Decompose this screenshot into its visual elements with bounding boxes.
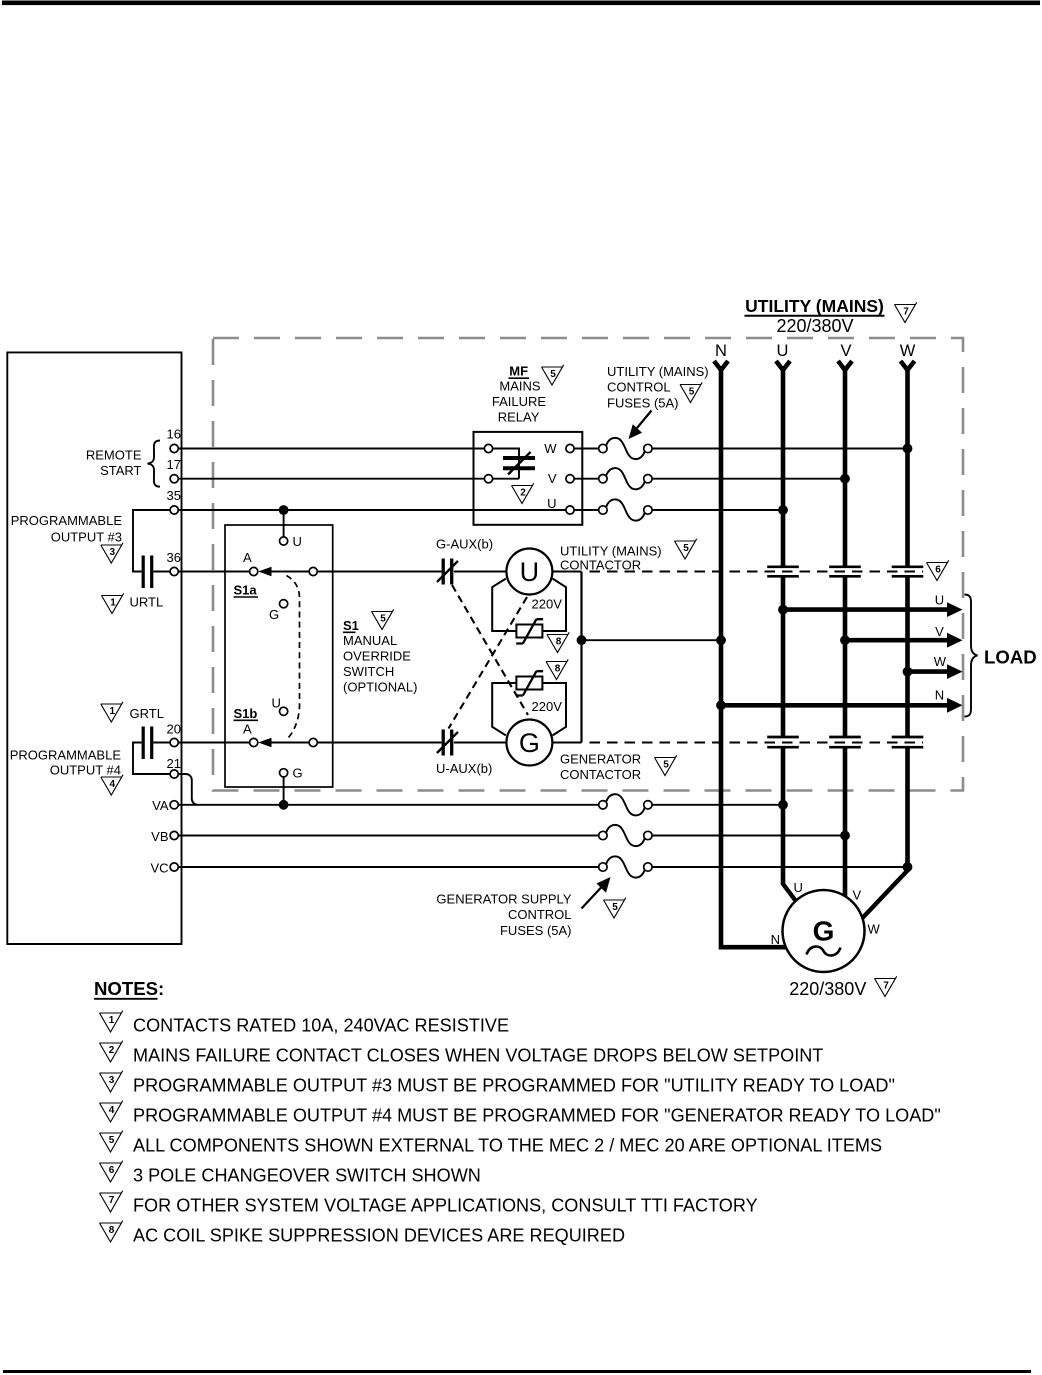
wire 21 elbow to VA — [178, 774, 198, 805]
node load U — [778, 605, 788, 615]
wire row 35 — [178, 509, 566, 511]
node V bus row17 — [840, 474, 850, 484]
svg-text:U: U — [520, 557, 540, 587]
S1a pole G — [269, 600, 288, 622]
flag note 8 — [100, 1221, 123, 1242]
S1b common A with arrow — [243, 722, 272, 748]
contact U-AUX(b) — [437, 730, 458, 756]
svg-text:7: 7 — [883, 980, 889, 991]
svg-text:7: 7 — [903, 306, 909, 317]
wire GRTL to 21 — [133, 743, 170, 775]
wire row 20 segments — [178, 742, 506, 744]
svg-text:MF: MF — [509, 364, 528, 379]
terminal VA — [152, 798, 178, 813]
terminal 35 — [167, 488, 181, 514]
node coil common — [577, 635, 587, 645]
relay MF box — [474, 432, 583, 525]
contactor U pole contact (V bus) — [829, 567, 861, 577]
svg-text:V: V — [840, 342, 851, 360]
svg-text:G: G — [293, 766, 303, 781]
flag 5 (S1) — [372, 609, 394, 629]
svg-text:V: V — [548, 471, 557, 486]
terminal 17 — [167, 457, 181, 483]
svg-text:U: U — [293, 534, 302, 549]
svg-text:A: A — [243, 550, 252, 565]
label UTILITY (MAINS) title — [745, 296, 885, 316]
terminal 16 — [167, 427, 181, 453]
svg-text:5: 5 — [663, 759, 669, 770]
svg-text:NOTES:: NOTES: — [94, 978, 164, 999]
page header rule — [2, 1, 1040, 6]
fuse W row — [599, 438, 652, 459]
svg-text:MAINS: MAINS — [499, 378, 541, 393]
svg-text:FOR OTHER SYSTEM VOLTAGE APPLI: FOR OTHER SYSTEM VOLTAGE APPLICATIONS, C… — [133, 1196, 758, 1216]
svg-text:5: 5 — [380, 613, 386, 624]
arrow to utility fuse — [629, 411, 652, 440]
coil G enclosure — [492, 683, 566, 735]
dashed interlock U coil to U-AUX — [449, 597, 528, 729]
svg-text:VB: VB — [151, 829, 168, 844]
svg-text:U-AUX(b): U-AUX(b) — [436, 761, 492, 776]
node U bus row35 — [778, 505, 788, 515]
dashed interlock G-AUX to G coil — [452, 585, 528, 715]
svg-text:G-AUX(b): G-AUX(b) — [436, 536, 493, 551]
svg-text:ALL COMPONENTS SHOWN EXTERNAL: ALL COMPONENTS SHOWN EXTERNAL TO THE MEC… — [133, 1136, 882, 1156]
bus N supply fork — [714, 361, 728, 370]
contactor coil U — [506, 549, 552, 595]
svg-text:4: 4 — [109, 1105, 115, 1116]
svg-text:2: 2 — [109, 1045, 115, 1056]
svg-text:W: W — [934, 654, 947, 669]
svg-text:3: 3 — [110, 547, 116, 558]
svg-text:REMOTE: REMOTE — [86, 447, 142, 462]
varistor (U coil) — [516, 619, 543, 643]
svg-text:W: W — [868, 922, 881, 937]
svg-text:1: 1 — [110, 706, 116, 717]
terminal 20 — [167, 722, 181, 747]
wire row 36 segments — [178, 571, 506, 573]
svg-text:U: U — [272, 696, 281, 711]
svg-text:6: 6 — [109, 1165, 115, 1176]
relay output contact V — [548, 471, 574, 486]
fuse VA — [599, 794, 652, 815]
contactor G pole contact (U bus) — [767, 737, 799, 747]
svg-text:VC: VC — [150, 860, 168, 875]
node VB on V bus — [840, 831, 850, 841]
svg-text:U: U — [935, 593, 944, 608]
flag 3 — [101, 543, 123, 563]
flag note 6 — [100, 1161, 123, 1182]
wire VC fuse to W bus — [652, 866, 908, 868]
fuse VC — [599, 856, 652, 877]
wire row 16 — [178, 448, 484, 450]
wire relay W to fuse — [574, 448, 599, 450]
svg-text:N: N — [935, 688, 944, 703]
brace remote start — [148, 441, 161, 487]
svg-text:SWITCH: SWITCH — [343, 664, 394, 679]
svg-text:CONTROL: CONTROL — [607, 380, 671, 395]
wire coil U right — [552, 571, 581, 573]
optional-items dashed boundary box — [213, 338, 963, 791]
terminal 21 — [167, 756, 181, 778]
svg-text:5: 5 — [109, 1135, 115, 1146]
terminal VC — [150, 860, 178, 875]
page footer rule — [3, 1370, 1031, 1373]
wire relay U to fuse — [574, 509, 599, 511]
label MF MAINS FAILURE RELAY — [492, 364, 547, 425]
contact MF (closes on mains failure) — [503, 452, 535, 475]
svg-text:V: V — [853, 888, 862, 903]
wire row 17 — [178, 478, 484, 480]
svg-text:LOAD: LOAD — [984, 647, 1037, 668]
wire row VB — [178, 835, 598, 837]
load feeder V — [845, 624, 963, 648]
svg-text:S1: S1 — [343, 618, 359, 633]
label REMOTE START — [86, 447, 142, 478]
bus N — [721, 369, 786, 948]
wire VA fuse to U bus — [652, 804, 783, 806]
controller outline box (MEC 2 / MEC 20) — [7, 352, 181, 944]
flag note 7 — [100, 1191, 123, 1212]
label GENERATOR SUPPLY CONTROL FUSES (5A) — [436, 891, 571, 938]
contact URTL — [143, 556, 152, 589]
flag note 3 — [100, 1071, 123, 1092]
flag note 1 — [100, 1011, 123, 1032]
S1b pole G — [280, 766, 303, 781]
terminal VB — [151, 829, 178, 844]
svg-text:PROGRAMMABLE: PROGRAMMABLE — [11, 513, 123, 528]
relay coil terminals left — [484, 444, 492, 482]
svg-text:220V: 220V — [532, 597, 563, 612]
S1a right terminal — [309, 567, 317, 575]
label S1a — [234, 583, 259, 598]
S1b pole U — [272, 696, 288, 716]
svg-text:S1a: S1a — [234, 583, 258, 598]
svg-text:V: V — [935, 624, 944, 639]
wire relay V to fuse — [574, 478, 599, 480]
bus U drop to generator — [783, 883, 797, 902]
svg-text:CONTACTS RATED 10A, 240VAC RES: CONTACTS RATED 10A, 240VAC RESISTIVE — [133, 1016, 509, 1036]
svg-text:OUTPUT #3: OUTPUT #3 — [51, 530, 122, 545]
svg-text:GENERATOR: GENERATOR — [560, 751, 641, 766]
svg-text:220/380V: 220/380V — [776, 316, 853, 336]
node VC on W bus — [903, 862, 913, 872]
node load W — [903, 667, 913, 677]
S1a pole U — [280, 534, 302, 549]
svg-text:16: 16 — [167, 427, 181, 442]
svg-text:G: G — [813, 916, 835, 947]
flag 7 (system voltage, top) — [895, 302, 917, 322]
svg-text:UTILITY (MAINS): UTILITY (MAINS) — [745, 296, 884, 316]
relay output contact U — [547, 496, 574, 514]
svg-text:N: N — [771, 932, 780, 947]
svg-text:1: 1 — [109, 1015, 115, 1026]
flag 6 (3 pole changeover) — [927, 560, 949, 580]
dashed mechanical link S1a-S1b — [287, 576, 300, 739]
svg-text:8: 8 — [555, 663, 561, 674]
wire fuse to V bus — [652, 478, 845, 480]
svg-text:A: A — [243, 722, 252, 737]
svg-text:CONTROL: CONTROL — [508, 907, 572, 922]
flag note 2 — [100, 1041, 123, 1062]
label NOTES heading — [94, 978, 164, 999]
svg-text:220V: 220V — [532, 699, 563, 714]
varistor (G coil) — [516, 671, 543, 695]
wire coil G right — [552, 742, 581, 744]
svg-text:(OPTIONAL): (OPTIONAL) — [343, 679, 417, 694]
svg-text:PROGRAMMABLE OUTPUT #3 MUST BE: PROGRAMMABLE OUTPUT #3 MUST BE PROGRAMME… — [133, 1076, 895, 1096]
svg-text:GRTL: GRTL — [130, 706, 164, 721]
svg-text:5: 5 — [612, 902, 618, 913]
terminal 36 — [167, 550, 181, 576]
bus W supply fork — [901, 361, 915, 370]
svg-text:S1b: S1b — [234, 706, 258, 721]
svg-text:FAILURE: FAILURE — [492, 394, 547, 409]
flag 1 (URTL) — [102, 593, 124, 613]
wire row VC — [178, 866, 598, 868]
flag 1 (GRTL) — [101, 702, 123, 722]
flag 5 (control fuses) — [680, 382, 702, 402]
svg-text:2: 2 — [520, 487, 526, 498]
svg-text:AC COIL SPIKE SUPPRESSION DEVI: AC COIL SPIKE SUPPRESSION DEVICES ARE RE… — [133, 1226, 625, 1246]
svg-text:17: 17 — [167, 457, 181, 472]
svg-text:CONTACTOR: CONTACTOR — [560, 767, 641, 782]
svg-text:220/380V: 220/380V — [789, 979, 866, 999]
wire coil common to N bus — [582, 639, 722, 641]
label UTILITY (MAINS) CONTACTOR — [560, 544, 662, 573]
flag 8 (upper) — [547, 632, 569, 652]
flag 7 (generator voltage) — [875, 976, 897, 996]
svg-text:8: 8 — [109, 1225, 115, 1236]
flag 5 (MF relay) — [542, 365, 564, 385]
wire fuse to U bus — [652, 509, 783, 511]
wire coils common vertical — [580, 572, 582, 743]
bus U — [781, 369, 786, 885]
node W bus row16 — [903, 444, 913, 454]
svg-text:7: 7 — [109, 1195, 115, 1206]
switch S1 box — [225, 525, 333, 787]
svg-text:VA: VA — [152, 798, 169, 813]
wire fuse to W bus — [652, 448, 908, 450]
svg-text:UTILITY (MAINS): UTILITY (MAINS) — [560, 544, 662, 559]
svg-text:3: 3 — [109, 1075, 115, 1086]
svg-text:FUSES (5A): FUSES (5A) — [607, 395, 679, 410]
node on N bus (coil return) — [716, 635, 726, 645]
svg-text:1: 1 — [110, 597, 116, 608]
load feeder U — [783, 593, 963, 618]
node 35/S1a-U junction — [279, 505, 289, 515]
bus V supply fork — [838, 361, 852, 370]
contactor coil G — [506, 720, 552, 766]
contactor G pole contact (W bus) — [892, 737, 924, 747]
svg-text:PROGRAMMABLE: PROGRAMMABLE — [10, 748, 122, 763]
flag 8 (lower) — [546, 659, 568, 679]
generator G circle — [783, 890, 865, 972]
svg-text:U: U — [794, 880, 803, 895]
svg-text:5: 5 — [550, 369, 556, 380]
wire 35 to URTL contact — [133, 510, 170, 572]
flag note 4 — [100, 1101, 123, 1122]
contact GRTL — [143, 727, 152, 760]
svg-text:21: 21 — [167, 756, 181, 771]
dashed actuating line G contactor — [590, 742, 924, 744]
label UTILITY (MAINS) CONTROL FUSES (5A) — [607, 364, 709, 411]
arrow to generator fuse — [582, 877, 611, 909]
bus V — [843, 369, 848, 898]
svg-text:FUSES (5A): FUSES (5A) — [500, 923, 572, 938]
brace load — [965, 595, 978, 717]
relay output contact W — [544, 441, 574, 456]
load feeder W — [908, 654, 963, 679]
node VA/S1-G junction — [279, 800, 289, 810]
node load N — [716, 700, 726, 710]
svg-text:35: 35 — [167, 488, 181, 503]
relay internal wiring jog — [493, 449, 519, 479]
flag 4 — [101, 775, 123, 795]
contactor U pole contact (U bus) — [767, 567, 799, 577]
node VA on U bus — [778, 800, 788, 810]
flag 5 (utility contactor) — [675, 539, 697, 559]
svg-text:W: W — [544, 441, 557, 456]
label PROGRAMMABLE OUTPUT #3 — [11, 513, 123, 545]
svg-text:UTILITY (MAINS): UTILITY (MAINS) — [607, 364, 709, 379]
svg-text:4: 4 — [110, 779, 116, 790]
svg-text:5: 5 — [689, 386, 695, 397]
S1a common A with arrow — [243, 550, 272, 576]
flag 2 — [512, 483, 534, 503]
svg-text:U: U — [777, 342, 789, 360]
svg-text:GENERATOR SUPPLY: GENERATOR SUPPLY — [436, 891, 571, 906]
svg-text:8: 8 — [556, 636, 562, 647]
node load V — [840, 635, 850, 645]
svg-text:5: 5 — [683, 543, 689, 554]
svg-text:OUTPUT #4: OUTPUT #4 — [50, 763, 121, 778]
svg-text:U: U — [547, 496, 556, 511]
label S1b — [234, 706, 259, 721]
svg-text:36: 36 — [167, 550, 181, 565]
fuse U row — [599, 499, 652, 520]
fuse VB — [599, 825, 652, 846]
fuse V row — [599, 468, 652, 489]
contact G-AUX(b) — [437, 559, 458, 585]
svg-text:RELAY: RELAY — [498, 410, 540, 425]
svg-text:MANUAL: MANUAL — [343, 633, 397, 648]
wire node 35 to S1a U — [283, 510, 285, 537]
wire S1b G to VA row — [283, 777, 285, 805]
coil U enclosure — [492, 579, 566, 631]
svg-text:OVERRIDE: OVERRIDE — [343, 649, 411, 664]
svg-text:6: 6 — [935, 564, 941, 575]
bus W drop to generator — [860, 870, 908, 921]
load feeder N — [721, 688, 963, 713]
bus U supply fork — [776, 361, 790, 370]
S1b right terminal — [309, 738, 317, 746]
svg-text:CONTACTOR: CONTACTOR — [560, 558, 641, 573]
svg-text:START: START — [100, 463, 141, 478]
bus W — [905, 369, 910, 872]
contactor U pole contact (W bus) — [892, 567, 924, 577]
svg-text:W: W — [900, 342, 916, 360]
flag note 5 — [100, 1131, 123, 1152]
svg-text:G: G — [519, 728, 540, 758]
label S1 MANUAL OVERRIDE SWITCH (OPTIONAL) — [343, 618, 417, 695]
flag 5 (generator contactor) — [655, 755, 677, 775]
svg-text:N: N — [715, 342, 727, 360]
svg-text:20: 20 — [167, 722, 181, 737]
svg-text:URTL: URTL — [130, 595, 164, 610]
wire row VA — [178, 804, 598, 806]
label GENERATOR CONTACTOR — [560, 751, 641, 782]
svg-text:G: G — [269, 607, 279, 622]
svg-text:PROGRAMMABLE OUTPUT #4 MUST BE: PROGRAMMABLE OUTPUT #4 MUST BE PROGRAMME… — [133, 1106, 941, 1126]
flag 5 (gen fuses) — [604, 898, 626, 918]
dashed actuating line U contactor — [590, 571, 924, 573]
svg-text:MAINS FAILURE CONTACT CLOSES W: MAINS FAILURE CONTACT CLOSES WHEN VOLTAG… — [133, 1046, 823, 1066]
label PROGRAMMABLE OUTPUT #4 — [10, 748, 122, 778]
svg-text:3 POLE CHANGEOVER SWITCH SHOWN: 3 POLE CHANGEOVER SWITCH SHOWN — [133, 1166, 481, 1186]
contactor G pole contact (V bus) — [829, 737, 861, 747]
wire VB fuse to V bus — [652, 835, 845, 837]
